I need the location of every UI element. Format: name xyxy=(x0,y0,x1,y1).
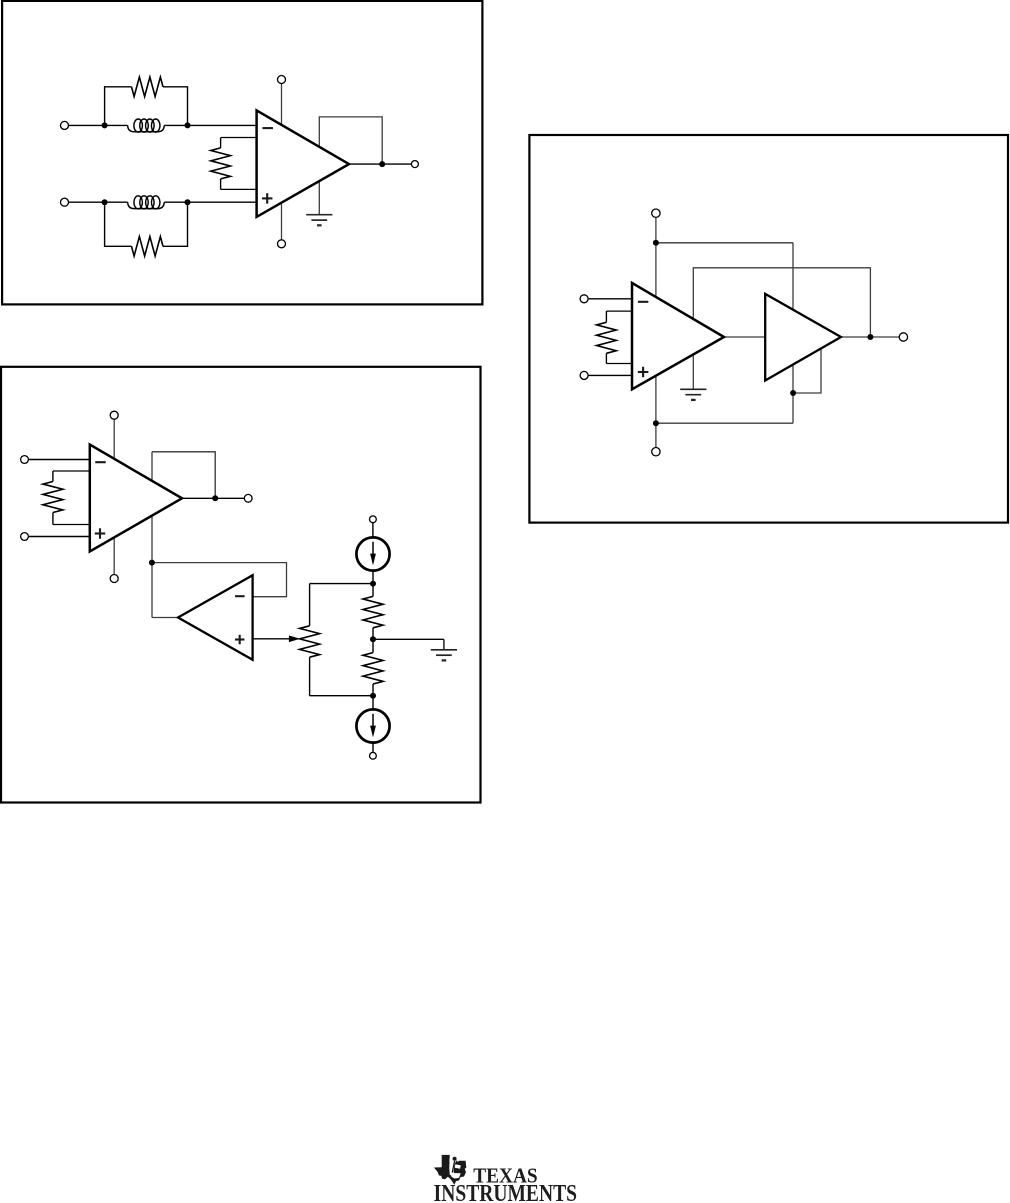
current source I2 xyxy=(356,709,389,742)
terminal: top current source supply xyxy=(370,516,377,523)
resistor R2 (parallel with L2) xyxy=(105,202,132,246)
wire: upper input to U1 inverting input xyxy=(69,124,128,126)
node: middle chain junction xyxy=(370,636,376,642)
terminal: lower input xyxy=(61,198,69,206)
wire: U3 feedback loop to inverting input xyxy=(152,563,287,597)
inductor L2 xyxy=(128,202,165,208)
wire: to current source I2 xyxy=(372,696,374,710)
node: bottom rail junction xyxy=(653,420,659,426)
wire: I1 to top chain node xyxy=(372,571,374,584)
node: U2 output junction xyxy=(212,495,218,501)
terminal: U2 output xyxy=(244,494,252,502)
logo: black slash inside stem xyxy=(452,1161,454,1173)
node: junction dots on upper input xyxy=(102,122,108,128)
U3 non-inverting input label xyxy=(235,638,245,640)
U1 non-inverting input label xyxy=(262,197,273,199)
wire: lower input to U1 non-inverting input xyxy=(69,201,128,203)
op-amp U5 (buffer) xyxy=(765,294,841,381)
U1 inverting input label xyxy=(262,127,273,129)
wire: U4 output to U5 input xyxy=(724,336,765,338)
wire: node to U3 output apex xyxy=(152,617,178,619)
terminal: U2 positive supply xyxy=(110,411,118,419)
terminal: negative supply xyxy=(652,448,660,456)
node: junction dots on lower input xyxy=(102,199,108,205)
svg-text:INSTRUMENTS: INSTRUMENTS xyxy=(434,1181,577,1203)
wire: U5 output xyxy=(841,336,899,338)
wire: U2 non-inverting input xyxy=(28,536,89,538)
wire: to current source I1 xyxy=(372,523,374,538)
logo: dot of the i xyxy=(453,1157,457,1161)
terminal: U4 inverting input xyxy=(580,295,588,303)
node: bottom chain junction xyxy=(370,693,376,699)
wire: U4 inverting input xyxy=(588,298,632,300)
terminal: U2 non-inverting input xyxy=(21,533,29,541)
U2 inverting input label xyxy=(95,461,106,463)
wire: supply stub through op-amp U1 xyxy=(281,84,283,240)
current source I1 xyxy=(356,537,389,570)
resistor R5 xyxy=(372,584,374,597)
op-amp U2 xyxy=(90,445,182,552)
resistor R4 (between U2 inputs) xyxy=(53,470,90,472)
wire: pass-through from U2 down to buffer U3 output xyxy=(151,452,153,618)
U4 non-inverting input label xyxy=(638,371,649,373)
schematic frame box 3 xyxy=(529,135,1008,523)
wire: supply column through op-amp U4 xyxy=(655,218,657,448)
node: top chain junction xyxy=(370,581,376,587)
resistor R3 (between U1 inputs) xyxy=(221,137,257,139)
inductor L1 xyxy=(128,125,165,131)
op-amp U3 (unity buffer, points left) xyxy=(178,575,253,660)
wire: U2 output xyxy=(182,497,244,499)
wire: right rail through buffer U5 xyxy=(792,243,794,423)
resistor R6 xyxy=(372,639,374,652)
terminal: U5 output xyxy=(899,333,907,341)
op-amp U1 xyxy=(257,110,349,216)
logo: white bottom bowl xyxy=(450,1173,461,1179)
terminal: bottom current source supply xyxy=(370,752,377,759)
wire: I2 to bottom terminal xyxy=(372,743,374,753)
wire: bottom supply rail xyxy=(656,422,793,424)
wire: U4 non-inverting input xyxy=(588,374,632,376)
terminal: positive supply xyxy=(652,209,660,217)
node: U5 output junction xyxy=(867,334,873,340)
ground: earth symbol below op-amp U1 xyxy=(306,214,332,216)
logo: white ti stem xyxy=(449,1159,457,1176)
Texas Instruments logo: Texas map glyph xyxy=(434,1155,466,1185)
schematic frame box 2 xyxy=(1,367,481,803)
wire: U3 non-inverting input with wiper arrow to potentiometer xyxy=(253,638,290,640)
ground: earth symbol below U4 xyxy=(680,388,706,390)
terminal: U4 non-inverting input xyxy=(580,371,588,379)
wire: node to potentiometer top xyxy=(310,583,373,585)
wire: U1 output xyxy=(349,163,411,165)
wire: U2 inverting input xyxy=(28,459,89,461)
terminal: upper input xyxy=(61,121,69,129)
wire: U2 feedback loop xyxy=(152,452,215,498)
node: top rail junction xyxy=(653,240,659,246)
resistor R1 (parallel with L1) xyxy=(105,87,132,126)
op-amp U4 xyxy=(632,283,724,389)
schematic frame box 1 xyxy=(2,1,482,305)
terminal: U2 negative supply xyxy=(110,575,118,583)
terminal: U1 output xyxy=(411,161,418,168)
U2 non-inverting input label xyxy=(95,532,106,534)
potentiometer P1 xyxy=(309,584,311,626)
wire: middle junction to ground xyxy=(373,638,444,640)
ground: earth symbol right of chain xyxy=(431,649,457,651)
wire: feedback loop from U1 output node xyxy=(319,117,382,214)
node: lower right junction xyxy=(790,390,796,396)
logo: white t crossbar notch xyxy=(455,1164,461,1168)
wire: node to potentiometer bottom xyxy=(310,695,373,697)
node: U1 output junction xyxy=(379,161,385,167)
wire: top supply rail xyxy=(656,242,793,244)
node: junction at U3 feedback column xyxy=(149,560,155,566)
resistor R7 (between U4 inputs) xyxy=(606,310,632,312)
terminal: negative supply of U1 xyxy=(278,240,286,248)
wire: feedback loop from U5 output over to U4 / ground column xyxy=(693,268,870,390)
U4 inverting input label xyxy=(638,301,649,303)
wire: step from lower junction to U5 bottom edge xyxy=(793,348,821,393)
U3 inverting input label xyxy=(235,595,245,597)
terminal: positive supply of U1 xyxy=(278,76,286,84)
terminal: U2 inverting input xyxy=(21,456,29,464)
wire: supply stub through op-amp U2 xyxy=(113,419,115,574)
